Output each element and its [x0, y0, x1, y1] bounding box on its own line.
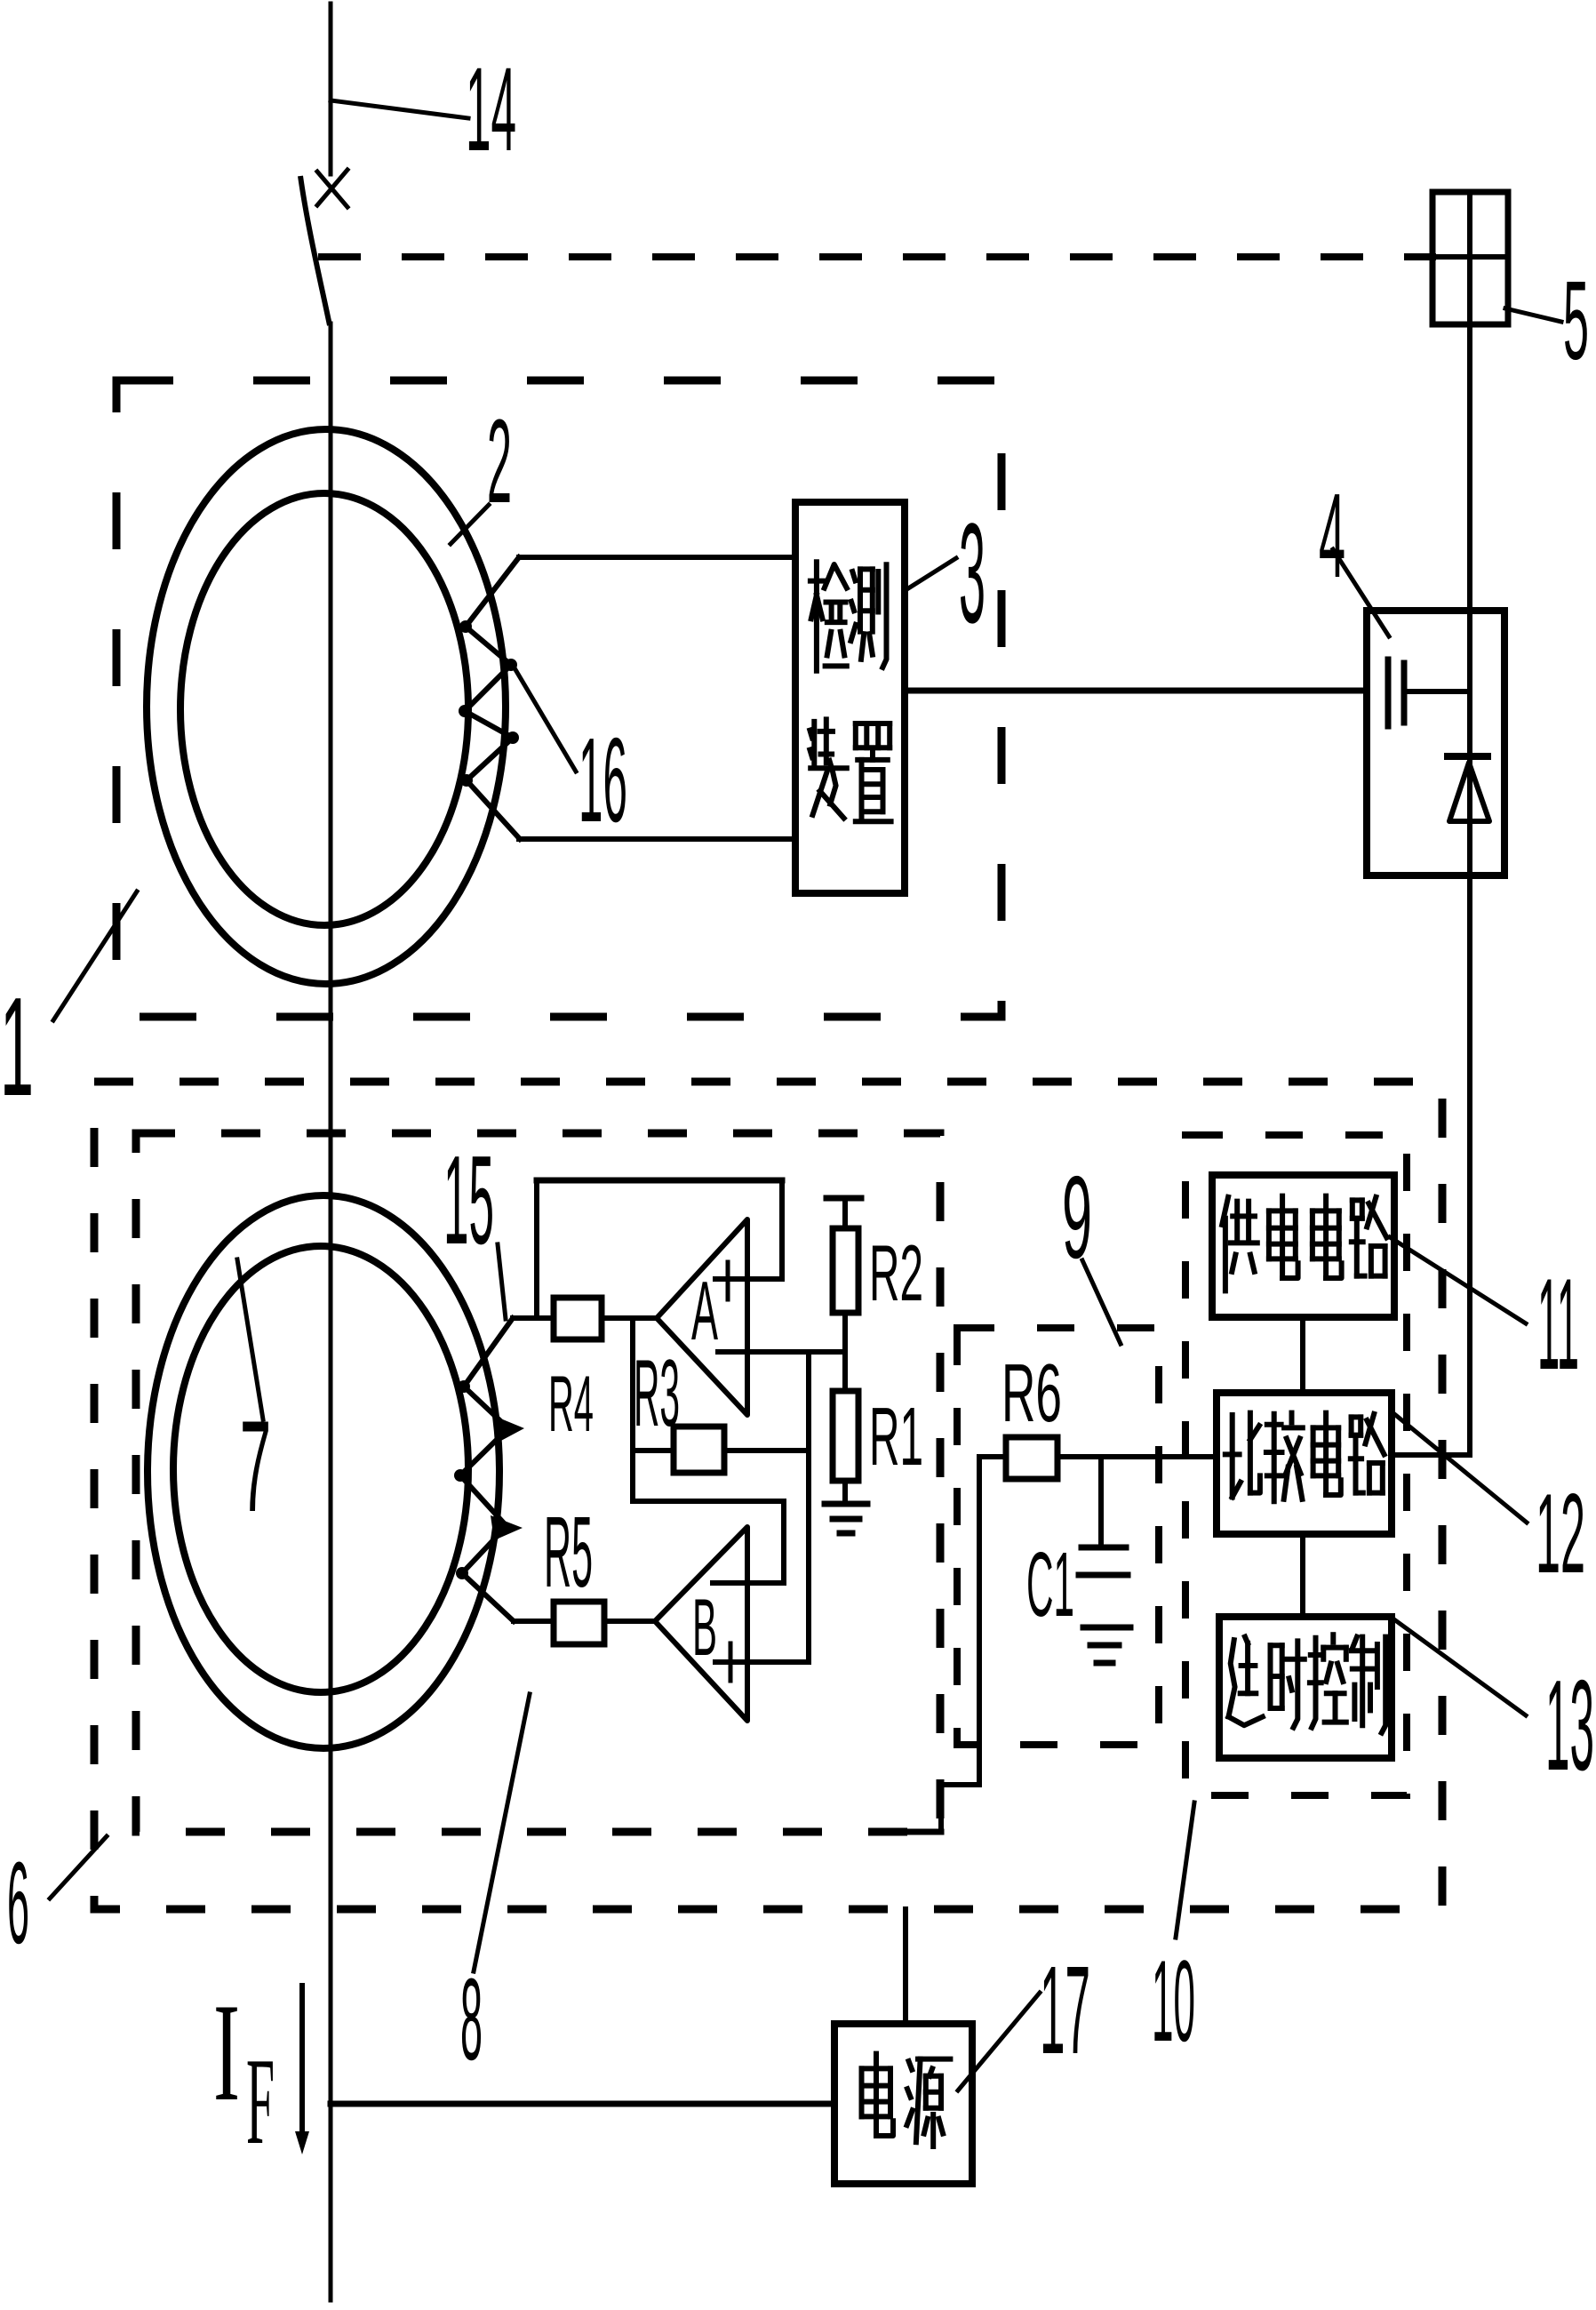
resistor R6 — [1006, 1437, 1057, 1479]
leader line to label 5 — [1505, 308, 1561, 322]
op-amp A inverting input wire to divider — [718, 1349, 845, 1355]
leader line to label 17 — [958, 1993, 1040, 2090]
comparison circuit box 12 (bi-jiao dian-lu) — [1217, 1393, 1392, 1534]
svg-text:1: 1 — [0, 969, 34, 1125]
svg-text:12: 12 — [1536, 1470, 1585, 1596]
wire detection device to unit 4 — [905, 688, 1367, 694]
leader line to label 13 — [1392, 1618, 1526, 1715]
wire comparison output to R6 (from left, down corner) — [979, 1454, 1006, 1459]
leader line to label 12 — [1393, 1413, 1527, 1523]
wire R4 to op-amp A input — [602, 1315, 657, 1321]
dashed enclosure 10 (control unit) — [1185, 1135, 1407, 1795]
node N2 vertical (A- , R3, B+) — [806, 1352, 811, 1662]
wire box12 to box13 — [1300, 1534, 1305, 1617]
svg-text:R2: R2 — [869, 1228, 923, 1317]
delay control box 13 (yan-shi kong-zhi) — [1219, 1617, 1392, 1758]
svg-text:7: 7 — [240, 1394, 271, 1539]
leader line to label 4 — [1333, 549, 1389, 636]
vertical rail through unit 4 — [1467, 611, 1472, 875]
svg-text:4: 4 — [1319, 468, 1345, 603]
leader line to label 3 — [908, 558, 956, 588]
op-amp B triangle — [655, 1527, 747, 1721]
power supply circuit box 11 (gong-dian dian-lu) — [1212, 1175, 1394, 1317]
svg-text:6: 6 — [7, 1837, 29, 1968]
wire node to R3 left — [633, 1448, 674, 1453]
op-amp B non-inverting input wire — [715, 1659, 809, 1665]
svg-text:16: 16 — [579, 713, 627, 847]
op-amp B plus mark — [729, 1643, 733, 1681]
winding 16 on core 2 — [465, 557, 520, 839]
resistor R1 — [833, 1391, 858, 1481]
wire R6 right to comparison circuit — [1057, 1454, 1217, 1459]
wire R2 to R1 junction — [842, 1313, 848, 1391]
wire comparison circuit right to vertical rail — [1392, 1452, 1470, 1458]
dashed enclosure 1 (detection unit) — [116, 380, 1001, 1017]
wire capacitor to vertical rail — [1404, 689, 1470, 694]
svg-text:R3: R3 — [634, 1339, 680, 1446]
svg-text:9: 9 — [1062, 1152, 1092, 1283]
wire main conductor lower segment — [329, 324, 333, 2300]
current transformer core 2 inner ring — [180, 493, 468, 925]
wire main conductor upper segment — [329, 4, 333, 174]
svg-text:R6: R6 — [1001, 1347, 1062, 1439]
wire supply bar to R2 — [842, 1198, 848, 1228]
switch X mark (breaker contact) — [317, 172, 347, 207]
op-amp A triangle — [657, 1219, 747, 1415]
power source box 17 (dian-yuan) — [834, 2024, 972, 2184]
svg-text:14: 14 — [466, 44, 516, 176]
current transformer core 7 inner ring — [173, 1246, 468, 1692]
op-amp A plus mark — [726, 1262, 730, 1299]
ground symbol below C1 — [1083, 1625, 1130, 1631]
leader line to label 9 — [1082, 1260, 1121, 1344]
wire power source up to enclosure 6 — [903, 1909, 908, 2024]
component 5 (trip unit) box — [1432, 192, 1508, 324]
current transformer core 7 outer ring — [148, 1195, 499, 1748]
wire box11 to box12 — [1300, 1317, 1305, 1393]
supply terminal bar above R2 — [826, 1195, 861, 1202]
svg-text:15: 15 — [443, 1130, 494, 1271]
wire winding-7 bottom lead to R5 — [514, 1619, 554, 1624]
svg-text:F: F — [246, 2033, 275, 2170]
switch blade 14 — [300, 176, 330, 325]
wire power source to main conductor — [331, 2101, 834, 2107]
diode inside unit 4 triangle — [1449, 763, 1489, 821]
current transformer core 2 outer ring — [147, 429, 506, 984]
wire from unit 4 down the right side — [1467, 875, 1472, 1455]
ground symbol below R1 — [825, 1501, 867, 1507]
dashed enclosure 8 (inner measuring unit) — [136, 1133, 940, 1832]
leader line to label 15 — [498, 1244, 506, 1319]
leader line to label 16 — [514, 667, 576, 771]
leader line to label 1 — [53, 891, 137, 1020]
wire junction down to C1 — [1098, 1457, 1104, 1547]
resistor R4 — [554, 1298, 602, 1339]
leader line to label 8 — [474, 1694, 530, 1971]
svg-text:17: 17 — [1040, 1939, 1090, 2080]
wire winding-7 top lead to R4 — [513, 1315, 554, 1321]
wire R6 left down jog — [977, 1457, 982, 1785]
svg-text:I: I — [213, 1975, 240, 2130]
svg-text:5: 5 — [1563, 258, 1589, 383]
wire from component 5 down to unit 4 — [1467, 324, 1472, 611]
leader line to label 11 — [1390, 1237, 1526, 1323]
diode inside unit 4 cathode bar — [1448, 753, 1488, 760]
svg-text:10: 10 — [1152, 1936, 1195, 2066]
svg-text:2: 2 — [487, 396, 512, 528]
dashed enclosure 6 (outer protection unit) — [94, 1082, 1442, 1909]
feedback wire left vertical — [534, 1180, 539, 1318]
capacitor C1 plates — [1081, 1545, 1126, 1551]
leader line to label 7 — [237, 1259, 263, 1419]
node wire from A output down (left vertical) — [630, 1318, 635, 1501]
capacitor plates inside unit 4 — [1385, 659, 1392, 726]
resistor R2 — [833, 1228, 858, 1313]
svg-text:C1: C1 — [1026, 1533, 1074, 1635]
svg-text:R5: R5 — [544, 1496, 593, 1608]
resistor R5 — [554, 1602, 604, 1644]
detection device box 3 (jian-ce zhuang-zhi) — [795, 502, 905, 893]
load current arrow — [299, 1986, 305, 2140]
svg-text:R4: R4 — [548, 1359, 594, 1448]
svg-text:13: 13 — [1545, 1653, 1594, 1797]
wire down to B inverting input — [781, 1501, 786, 1583]
op-amp B inverting input wire — [713, 1580, 784, 1586]
wire winding top lead to detection device — [519, 555, 795, 560]
resistor R3 — [674, 1427, 724, 1473]
svg-text:11: 11 — [1537, 1251, 1579, 1396]
feedback wire right vertical to + input — [779, 1180, 785, 1279]
dashed control link wire (to tripper 5) — [322, 253, 1432, 260]
leader line to label 14 — [331, 100, 468, 118]
wire R1 to ground — [842, 1481, 848, 1502]
op-amp A non-inverting input wire — [715, 1276, 782, 1282]
component 5 internal cross — [1467, 192, 1472, 324]
leader line to label 2 — [451, 505, 489, 544]
wire R5 to op-amp B — [604, 1619, 655, 1624]
svg-text:B: B — [692, 1583, 717, 1673]
svg-text:R1: R1 — [869, 1390, 923, 1483]
wire from A-output node to B inverting input horizontal — [633, 1499, 784, 1504]
wire winding bottom lead to detection device — [519, 836, 795, 842]
wire R3 right to node N2 — [724, 1448, 809, 1453]
leader line to label 10 — [1176, 1802, 1194, 1938]
leader line to label 6 — [50, 1836, 107, 1898]
svg-text:8: 8 — [460, 1954, 483, 2084]
svg-text:3: 3 — [959, 493, 986, 652]
dashed enclosure 9 (filter) — [957, 1328, 1159, 1745]
unit 4 box — [1367, 611, 1504, 875]
feedback wire top horizontal — [537, 1178, 782, 1184]
winding 15 on core 7 — [460, 1318, 514, 1621]
